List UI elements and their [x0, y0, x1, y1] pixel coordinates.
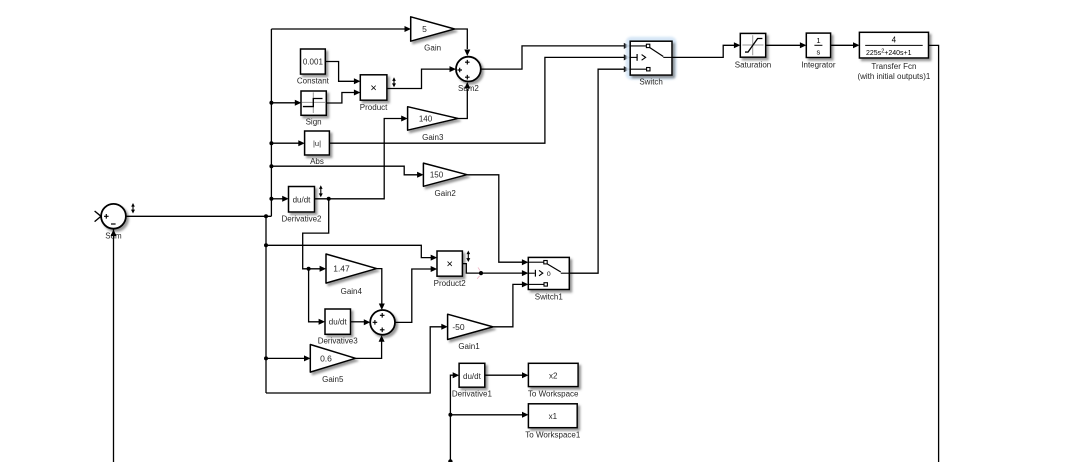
svg-text:1: 1 — [816, 36, 820, 45]
wire branch to Sign — [271, 102, 295, 104]
svg-text:Constant: Constant — [297, 77, 330, 86]
sum block Sum2 — [456, 57, 481, 82]
svg-text:Switch1: Switch1 — [535, 293, 564, 302]
wire Derivative1 tap bus — [450, 375, 453, 461]
node junction Sum output / lower bus — [264, 214, 268, 218]
svg-text:4: 4 — [892, 36, 897, 45]
svg-text:Gain1: Gain1 — [458, 342, 480, 351]
svg-text:du/dt: du/dt — [329, 318, 348, 327]
svg-text:0: 0 — [547, 271, 551, 278]
wire Sum2 output to Switch top input — [481, 46, 625, 69]
svg-text:5: 5 — [422, 24, 427, 34]
wire Sum bottom input from feedback line — [113, 228, 115, 462]
svg-text:du/dt: du/dt — [293, 195, 312, 204]
svg-text:Transfer Fcn: Transfer Fcn — [871, 62, 916, 71]
svg-text:du/dt: du/dt — [463, 372, 482, 381]
svg-text:-50: -50 — [452, 322, 465, 332]
node junction Derivative2 output branch — [327, 197, 331, 201]
svg-text:Product2: Product2 — [434, 279, 467, 288]
wire Integrator to Transfer Fcn — [831, 44, 854, 46]
wire upper bus vertical — [270, 29, 272, 216]
svg-text:Derivative1: Derivative1 — [452, 390, 493, 399]
svg-text:Saturation: Saturation — [735, 60, 771, 69]
wire Gain output to Sum2 top — [455, 29, 468, 49]
svg-text:s: s — [817, 48, 821, 57]
wire top branch to Gain — [271, 28, 404, 30]
svg-text:(with initial outputs)1: (with initial outputs)1 — [857, 72, 930, 81]
wire Gain5 output to sum circle bottom — [356, 342, 382, 359]
svg-text:Gain5: Gain5 — [322, 375, 344, 384]
svg-text:To Workspace: To Workspace — [528, 390, 579, 399]
switch block Switch — [630, 41, 672, 75]
wire Gain1 output to Switch1 bottom input — [493, 284, 522, 326]
unconnected input port arrow on Sum — [95, 211, 101, 222]
derivative block Derivative3 (du/dt) — [325, 309, 351, 334]
sum block (unnamed, three + inputs) — [370, 310, 395, 335]
svg-text:1.47: 1.47 — [333, 264, 350, 274]
node junction bus-Derivative2 — [269, 197, 273, 201]
derivative block Derivative2 (du/dt) — [289, 187, 315, 213]
wire Product2 output to Switch1 middle input — [462, 264, 522, 274]
wire Saturation to Integrator — [766, 44, 801, 46]
gain block Gain2 (value 150) — [423, 163, 467, 186]
svg-text:140: 140 — [419, 115, 433, 124]
node junction lower bus to Gain5 — [264, 356, 268, 360]
wire branch to Product2 input 1 — [266, 245, 431, 257]
logging badge on Product output — [393, 79, 395, 86]
product block Product2 — [437, 251, 462, 276]
wire Sum output to main bus — [126, 215, 271, 217]
selection highlight around Switch — [628, 39, 674, 77]
node junction bus-Gain2 — [269, 164, 273, 168]
svg-text:0.001: 0.001 — [303, 58, 324, 67]
wire branch to Gain5 — [266, 357, 305, 359]
gain block Gain1 (value -50) — [448, 314, 493, 339]
node test point marker on Product2 wire — [479, 271, 483, 275]
node junction feedback to Derivative1 bus — [448, 459, 452, 462]
node junction tap to To Workspace1 — [448, 413, 452, 417]
saturation block Saturation — [740, 33, 765, 57]
switch block Switch1 — [528, 257, 569, 289]
svg-text:×: × — [370, 83, 376, 95]
gain block Gain5 (value 0.6) — [310, 345, 355, 373]
node junction bus-Sign — [269, 101, 273, 105]
wire Derivative2 output to Gain3 — [315, 119, 402, 199]
wire sum circle output to Product2 input 2 — [395, 269, 431, 322]
wire Derivative3 output to sum circle left — [351, 321, 365, 323]
svg-text:150: 150 — [430, 171, 444, 180]
node junction Gain4/Derivative3 — [307, 267, 311, 271]
wire branch to Abs — [271, 142, 299, 144]
svg-text:Gain: Gain — [424, 44, 441, 53]
svg-text:×: × — [446, 259, 452, 271]
sign block Sign (signum icon) — [301, 91, 326, 115]
svg-text:Gain2: Gain2 — [435, 189, 457, 198]
to-workspace block To Workspace1 (x1) — [528, 404, 577, 428]
wire branch to Derivative3 — [309, 269, 320, 322]
product block Product — [360, 75, 387, 100]
svg-text:x1: x1 — [549, 412, 558, 421]
gain block Gain3 (value 140) — [408, 107, 458, 131]
wire Gain3 output to Sum2 bottom input — [458, 89, 467, 119]
svg-text:Sign: Sign — [306, 118, 322, 127]
svg-text:Switch: Switch — [639, 78, 663, 87]
wire Transfer Fcn output feedback down — [929, 45, 939, 462]
svg-text:Product: Product — [360, 103, 388, 112]
wire branch down to Gain4/Derivative3 bus — [303, 199, 329, 269]
wire Gain2 output to Switch1 top input — [467, 175, 522, 262]
derivative block Derivative1 (du/dt) — [459, 363, 485, 387]
wire Switch output to Saturation — [672, 45, 734, 57]
wire Sign to Product input 2 — [326, 93, 354, 104]
wire branch to Gain2 — [271, 166, 417, 175]
svg-text:Derivative2: Derivative2 — [281, 215, 322, 224]
wire Derivative1 to To Workspace — [485, 374, 523, 376]
gain block Gain (value 5) — [411, 17, 455, 41]
wire lower bus to Gain1 (bottom route) — [266, 327, 442, 393]
logging badge on Product2 output — [467, 252, 469, 261]
svg-text:Integrator: Integrator — [801, 60, 836, 69]
svg-text:|u|: |u| — [313, 139, 321, 148]
sum block Sum (circle with + and - ports) — [101, 204, 126, 229]
wire Constant to Product input 1 — [326, 62, 355, 82]
svg-text:0.6: 0.6 — [320, 353, 332, 363]
to-workspace block To Workspace (x2) — [528, 363, 578, 386]
node junction bus-Abs — [269, 141, 273, 145]
wire lower bus vertical — [265, 216, 267, 393]
transfer function block Transfer Fcn (with initial outputs)1 — [859, 32, 928, 58]
svg-text:Abs: Abs — [310, 157, 324, 166]
svg-text:Gain4: Gain4 — [341, 287, 363, 296]
svg-text:Gain3: Gain3 — [422, 133, 444, 142]
svg-text:Derivative3: Derivative3 — [318, 337, 359, 346]
wire Gain4 output to sum circle top — [377, 269, 382, 304]
wire Abs output to Switch middle input — [330, 57, 625, 143]
wire branch to Derivative2 — [271, 198, 283, 200]
wire Product output to Sum2 left input — [387, 69, 450, 88]
integrator block Integrator (1/s) — [806, 33, 830, 57]
abs block Abs (|u|) — [305, 131, 330, 155]
logging badge on Derivative2 output — [320, 187, 322, 196]
node junction lower bus to Product2 line — [264, 243, 268, 247]
svg-text:225s2+240s+1: 225s2+240s+1 — [866, 49, 912, 58]
logging badge on Sum output — [132, 205, 134, 213]
svg-text:To Workspace1: To Workspace1 — [525, 431, 581, 440]
wire to To Workspace1 — [450, 414, 522, 416]
wire Switch1 output to Switch bottom input — [569, 69, 624, 273]
constant block Constant (0.001) — [301, 49, 326, 74]
gain block Gain4 (value 1.47) — [326, 254, 377, 283]
svg-text:x2: x2 — [549, 371, 558, 380]
